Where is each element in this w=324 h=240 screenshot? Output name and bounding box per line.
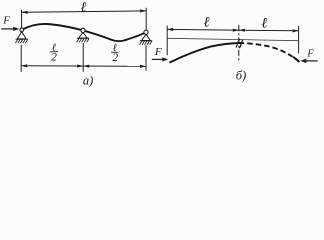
arrowhead bottom-middle left bbox=[77, 65, 83, 68]
arrowhead left of top dimension bbox=[22, 11, 28, 14]
svg-text:2: 2 bbox=[51, 51, 57, 63]
extension line left end (fig b) bbox=[166, 26, 168, 56]
arrowhead left of fig b dimension bbox=[167, 28, 173, 31]
arrowhead center-left of fig b dimension bbox=[233, 29, 239, 32]
beam elastic curve (fig a) bbox=[22, 24, 146, 41]
arrowhead center-right of fig b dimension bbox=[239, 29, 245, 32]
extension line below left support bbox=[20, 45, 22, 72]
arrowhead right of fig b dimension bbox=[293, 29, 299, 32]
svg-text:2: 2 bbox=[112, 52, 118, 64]
extension line above right support bbox=[145, 8, 147, 30]
dimension line l/2 + l/2 (bottom, fig a) bbox=[21, 65, 146, 68]
arrowhead bottom-right bbox=[140, 65, 146, 68]
arrowhead right of top dimension bbox=[140, 9, 146, 12]
dimension line l + l (top, fig b) bbox=[167, 29, 298, 30]
svg-text:ℓ: ℓ bbox=[80, 1, 86, 16]
arrowhead bottom-middle right bbox=[83, 65, 89, 68]
svg-text:F: F bbox=[2, 16, 10, 27]
buckled column dashed half end stroke (fig b) bbox=[293, 57, 299, 62]
initial straight axis (fig b) bbox=[167, 38, 298, 40]
buckled column dashed half (fig b) bbox=[239, 43, 299, 62]
extension line below right support bbox=[145, 45, 147, 71]
middle pin support (fig a) bbox=[77, 28, 89, 42]
buckled column solid half (fig b) bbox=[169, 43, 238, 63]
right pin support (fig a) bbox=[140, 30, 153, 45]
svg-text:ℓ: ℓ bbox=[261, 15, 267, 31]
center line (fig b) bbox=[238, 25, 240, 61]
force F arrow left (fig b) bbox=[152, 58, 163, 60]
force F arrow right (fig b) bbox=[306, 60, 317, 62]
svg-text:а): а) bbox=[83, 74, 93, 88]
svg-text:ℓ: ℓ bbox=[203, 15, 209, 31]
left pin support (fig a) bbox=[15, 28, 27, 43]
svg-text:F: F bbox=[154, 46, 162, 58]
force F arrow (fig a) bbox=[1, 28, 13, 30]
svg-text:б): б) bbox=[236, 69, 246, 83]
svg-text:F: F bbox=[306, 49, 314, 60]
dimension line l (top, fig a) bbox=[22, 11, 147, 12]
extension line right end (fig b) bbox=[298, 26, 300, 54]
extension line above left support bbox=[21, 10, 23, 28]
arrowhead bottom-left bbox=[21, 64, 27, 67]
midpoint tick marks (fig b) bbox=[236, 39, 239, 48]
extension line below middle support bbox=[82, 43, 84, 72]
